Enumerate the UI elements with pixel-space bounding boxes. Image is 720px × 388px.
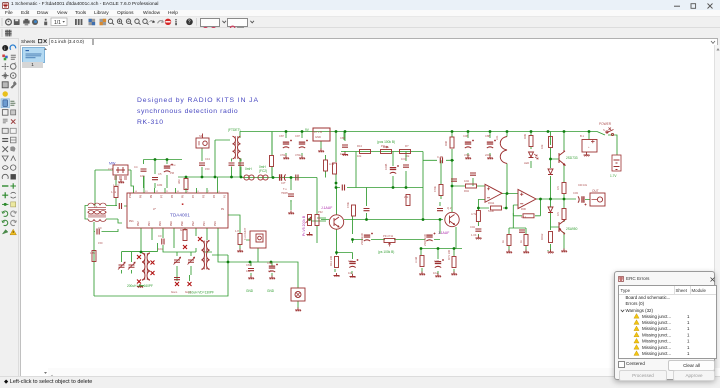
x-mark CV3 bbox=[175, 282, 179, 286]
svg-text:10u: 10u bbox=[433, 271, 438, 275]
resistor R11 bbox=[400, 150, 411, 154]
capacitor C23 series bbox=[451, 179, 457, 181]
left tool palette bbox=[0, 39, 19, 376]
svg-text:P31 P11: P31 P11 bbox=[383, 234, 394, 238]
svg-text:P96: P96 bbox=[214, 221, 217, 226]
svg-text:C03: C03 bbox=[573, 191, 578, 195]
svg-text:470u: 470u bbox=[464, 153, 470, 157]
resistor R28 feedback bbox=[491, 206, 502, 210]
svg-text:1.7V: 1.7V bbox=[610, 174, 617, 178]
svg-text:C13: C13 bbox=[205, 157, 210, 161]
svg-text:4.7k: 4.7k bbox=[329, 162, 335, 166]
capacitor C16 bbox=[349, 259, 358, 268]
svg-text:1.0K: 1.0K bbox=[471, 233, 477, 237]
svg-text:470u: 470u bbox=[295, 153, 301, 157]
wire opamp2 bias bbox=[509, 213, 526, 250]
toolbar row 2 bbox=[0, 28, 720, 39]
capacitor C02 bbox=[470, 173, 476, 175]
svg-text:Q.2: Q.2 bbox=[447, 206, 452, 210]
x-mark CV4 bbox=[188, 282, 192, 286]
diode D3 bbox=[548, 207, 553, 213]
svg-text:10.k: 10.k bbox=[521, 215, 527, 219]
node bias junctions bbox=[335, 251, 338, 254]
switch SW1 bbox=[606, 128, 614, 136]
IC U3 top pin numbers bbox=[135, 191, 221, 193]
ground C9 bbox=[269, 276, 275, 280]
svg-text:0.5: 0.5 bbox=[556, 212, 560, 216]
ground R26 bbox=[506, 250, 512, 254]
svg-text:10M: 10M bbox=[157, 183, 163, 187]
capacitor C21 bbox=[364, 209, 370, 211]
ground C8 bbox=[248, 276, 254, 280]
wire varco2 box bbox=[163, 245, 212, 281]
x-mark T2 c bbox=[151, 271, 155, 275]
svg-text:GND: GND bbox=[246, 289, 254, 293]
svg-text:10K: 10K bbox=[340, 152, 345, 156]
svg-text:(ps 100k B): (ps 100k B) bbox=[378, 250, 394, 254]
svg-text:P8: P8 bbox=[150, 194, 153, 198]
resistor R23 bbox=[549, 232, 553, 243]
resistor R8 bias bbox=[270, 156, 274, 167]
wire opamp1 feedback bbox=[478, 194, 518, 237]
capacitor C19 series bbox=[296, 175, 298, 181]
capacitor C26 series bbox=[440, 157, 442, 163]
svg-text:PM: PM bbox=[170, 171, 175, 175]
svg-text:470k: 470k bbox=[433, 186, 437, 192]
svg-text:POWER: POWER bbox=[599, 122, 612, 126]
svg-text:bisco: bisco bbox=[171, 290, 178, 294]
svg-text:Missing junct...: Missing junct... bbox=[642, 351, 671, 356]
magenta labels bbox=[302, 206, 449, 236]
wire mixer column bbox=[335, 174, 337, 188]
svg-text:C00 10k: C00 10k bbox=[578, 184, 588, 187]
resistor R9 bbox=[333, 163, 337, 174]
ground C16 bbox=[350, 274, 356, 278]
wire cap grounds mid bbox=[286, 131, 564, 274]
svg-text:1: 1 bbox=[687, 351, 690, 356]
ground P1 bbox=[307, 232, 313, 236]
wire driver chain bbox=[551, 148, 560, 251]
capacitor C04 bbox=[475, 229, 481, 231]
svg-text:L.L.C: L.L.C bbox=[113, 183, 119, 187]
resistor R1 bbox=[114, 187, 118, 198]
svg-text:P4: P4 bbox=[192, 194, 195, 198]
capacitor C4 bbox=[141, 169, 147, 171]
svg-text:GND: GND bbox=[315, 135, 321, 139]
ground R18 bbox=[451, 272, 457, 276]
capacitor C5 bbox=[152, 178, 158, 180]
svg-text:P2: P2 bbox=[213, 194, 216, 198]
node output junctions bbox=[549, 198, 552, 201]
svg-text:RK-310: RK-310 bbox=[137, 119, 164, 126]
capacitor C97 bbox=[299, 140, 308, 149]
svg-text:0.5: 0.5 bbox=[556, 186, 560, 190]
resistor R20 bbox=[439, 185, 443, 196]
transistor Q3 2SD733 bbox=[559, 150, 565, 166]
svg-text:R13 100: R13 100 bbox=[329, 255, 333, 266]
svg-text:10k: 10k bbox=[357, 154, 362, 158]
pot P2 bbox=[381, 150, 392, 154]
capacitor C8 gnd bbox=[248, 269, 254, 271]
svg-text:P92: P92 bbox=[192, 221, 195, 226]
svg-text:R13: R13 bbox=[357, 144, 362, 148]
svg-text:220u: 220u bbox=[485, 153, 491, 157]
resistor R7 bbox=[238, 234, 242, 245]
schematic canvas bbox=[48, 45, 714, 368]
svg-text:C21: C21 bbox=[108, 167, 113, 171]
svg-text:10k: 10k bbox=[246, 269, 251, 273]
ground C04 bbox=[475, 236, 481, 240]
svg-text:10k: 10k bbox=[540, 144, 544, 149]
svg-text:P88: P88 bbox=[170, 221, 173, 226]
svg-text:C0: C0 bbox=[158, 234, 162, 238]
resistor R25 bbox=[562, 209, 566, 220]
transformer T2 bbox=[142, 253, 150, 280]
resistor R5 bbox=[92, 251, 96, 262]
svg-text:C5: C5 bbox=[158, 172, 162, 176]
svg-text:C84: C84 bbox=[246, 263, 251, 267]
inductor L3 bbox=[244, 175, 254, 180]
svg-text:P7: P7 bbox=[161, 194, 164, 198]
resistor R24 bbox=[562, 183, 566, 194]
ground C88 bbox=[487, 156, 493, 160]
svg-text:1: 1 bbox=[687, 326, 690, 331]
wire detector line bbox=[240, 132, 326, 244]
svg-text:104: 104 bbox=[158, 247, 163, 251]
ceramic filter CF1 bbox=[113, 165, 128, 175]
svg-text:1/1: 1/1 bbox=[54, 20, 61, 26]
capacitor C2 pol bbox=[164, 164, 173, 173]
red designator smudges bbox=[90, 122, 612, 294]
svg-text:750PF: 750PF bbox=[281, 192, 289, 195]
battery holder B1 bbox=[582, 140, 597, 153]
capacitor C20 horizontal bbox=[280, 174, 286, 180]
transistor Q4 2SA950 bbox=[559, 219, 565, 235]
svg-text:(FC2): (FC2) bbox=[259, 169, 267, 173]
ground R27 bbox=[523, 250, 529, 254]
sheets panel bbox=[19, 38, 48, 376]
svg-text:310uH VD=130PF: 310uH VD=130PF bbox=[188, 291, 214, 295]
svg-text:C80: C80 bbox=[267, 261, 272, 265]
capacitor C87 bbox=[283, 140, 292, 149]
svg-text:FT.: FT. bbox=[94, 205, 98, 209]
wire IF bus above IC bbox=[95, 160, 182, 207]
svg-text:IUT x B: IUT x B bbox=[313, 130, 322, 134]
svg-text:10K: 10K bbox=[140, 174, 145, 178]
battery cell B2 bbox=[612, 155, 621, 171]
ground output bbox=[561, 249, 567, 253]
wire VCC top rail bbox=[240, 132, 597, 178]
node vcc junctions bbox=[451, 130, 454, 133]
svg-text:L01: L01 bbox=[495, 135, 499, 140]
capacitor C17 bbox=[435, 259, 444, 268]
varco CV1 bbox=[118, 262, 125, 270]
resistor R13 bbox=[406, 195, 410, 206]
svg-text:Missing junct...: Missing junct... bbox=[642, 332, 671, 337]
box F-COUNT bbox=[250, 231, 266, 248]
svg-text:P10: P10 bbox=[129, 193, 132, 198]
x-mark T2 d bbox=[137, 280, 141, 284]
toolbar row 1 bbox=[0, 17, 720, 28]
ground R23 bbox=[548, 250, 554, 254]
varco CV4 bbox=[188, 257, 195, 265]
ground C11 bbox=[342, 152, 348, 156]
resistor R21 bbox=[529, 136, 533, 147]
node bus junctions bbox=[154, 158, 157, 161]
svg-text:C0*: C0* bbox=[281, 181, 285, 185]
vertical scrollbar bbox=[714, 45, 720, 368]
svg-text:1.8k: 1.8k bbox=[90, 251, 96, 255]
transformer FT1 bbox=[88, 203, 106, 214]
wire led chain bbox=[530, 147, 532, 168]
svg-text:OUT: OUT bbox=[592, 189, 599, 193]
svg-text:Missing junct...: Missing junct... bbox=[642, 314, 671, 319]
wire opamp2 output bbox=[513, 199, 590, 216]
svg-text:P90: P90 bbox=[181, 221, 184, 226]
capacitor C6 bbox=[97, 229, 99, 235]
svg-text:P8: P8 bbox=[221, 208, 225, 211]
capacitor C29 bbox=[426, 233, 435, 242]
wire oscillator loop bbox=[94, 255, 298, 308]
LED D1 bbox=[529, 152, 539, 159]
green net labels bbox=[127, 128, 617, 295]
wire detector bias rail bbox=[337, 216, 463, 259]
capacitor trio under CF1 bbox=[114, 177, 127, 179]
svg-text:?: ? bbox=[188, 20, 191, 26]
svg-text:100B: 100B bbox=[384, 164, 388, 170]
svg-text:POu: POu bbox=[170, 163, 176, 167]
svg-text:1: 1 bbox=[687, 339, 690, 344]
svg-text:bisco: bisco bbox=[180, 228, 187, 232]
ground J1 bbox=[295, 308, 301, 312]
varco CV3 bbox=[174, 257, 181, 265]
svg-text:513k: 513k bbox=[488, 209, 494, 213]
svg-text:C4: C4 bbox=[134, 165, 138, 169]
svg-text:Pr-V5 200k B: Pr-V5 200k B bbox=[302, 215, 306, 236]
resistor R31 fb2 bbox=[523, 214, 534, 218]
wire q2 leads bbox=[451, 136, 453, 212]
svg-text:S.: S. bbox=[603, 128, 606, 132]
svg-text:R011: R011 bbox=[488, 201, 495, 205]
wire detector IF line bbox=[178, 140, 241, 179]
x-mark T3 bbox=[198, 237, 202, 241]
coordinate + command row bbox=[48, 38, 720, 45]
svg-text:bisco: bisco bbox=[185, 290, 192, 294]
transistor Q1 bbox=[329, 215, 343, 229]
wire fcount bbox=[228, 215, 272, 276]
svg-text:P5: P5 bbox=[182, 194, 185, 198]
resistor R32 agc bbox=[315, 215, 319, 226]
svg-text:+: + bbox=[588, 146, 590, 149]
ground C06 bbox=[465, 156, 471, 160]
op-amp U1 bbox=[485, 184, 502, 202]
svg-text:P82: P82 bbox=[137, 221, 140, 226]
svg-text:P84: P84 bbox=[148, 221, 151, 226]
ground VR1 bbox=[318, 149, 324, 153]
svg-text:1k: 1k bbox=[519, 240, 523, 243]
svg-text:C97: C97 bbox=[295, 134, 300, 138]
transformer FT2 detector bbox=[233, 136, 241, 159]
wire varco1 box bbox=[122, 243, 158, 286]
capacitor C1 coupling bbox=[119, 203, 121, 209]
capacitor C12 bbox=[390, 165, 399, 174]
svg-text:C0: C0 bbox=[98, 226, 102, 230]
svg-text:C.7B: C.7B bbox=[437, 155, 443, 159]
capacitor C9 gnd bbox=[269, 264, 278, 273]
wire antenna input bbox=[115, 175, 117, 206]
wire output stage bbox=[551, 165, 565, 248]
svg-text:P81: P81 bbox=[129, 220, 134, 223]
svg-text:TDA4001: TDA4001 bbox=[170, 213, 190, 218]
ground battery bbox=[584, 153, 590, 157]
svg-text:J.1AUF: J.1AUF bbox=[438, 231, 449, 235]
node signal junctions bbox=[365, 218, 368, 221]
svg-text:470u: 470u bbox=[280, 153, 286, 157]
ground R7 bbox=[237, 249, 243, 253]
capacitor C06 bbox=[465, 140, 474, 149]
svg-text:P3: P3 bbox=[203, 194, 206, 198]
svg-text:1: 1 bbox=[687, 320, 690, 325]
wire regulator input line bbox=[286, 132, 321, 150]
svg-text:150: 150 bbox=[205, 167, 210, 171]
svg-text:38C: 38C bbox=[177, 179, 181, 184]
resistor R18 bbox=[452, 257, 456, 268]
svg-text:SF: SF bbox=[199, 134, 203, 138]
wire battery bbox=[597, 132, 617, 156]
wire pot network bbox=[336, 152, 454, 222]
wire FT1 links bbox=[85, 206, 127, 297]
ic marker dot bbox=[182, 203, 184, 205]
pot P1 vertical bbox=[306, 215, 312, 226]
svg-text:P9: P9 bbox=[140, 194, 143, 198]
svg-text:3.3M: 3.3M bbox=[414, 256, 418, 263]
svg-text:B.1: B.1 bbox=[580, 134, 585, 138]
svg-text:20k: 20k bbox=[404, 195, 409, 199]
svg-text:P32: P32 bbox=[318, 210, 323, 214]
x-mark T2 b bbox=[151, 261, 155, 265]
svg-text:P1: P1 bbox=[224, 194, 227, 198]
svg-text:i: i bbox=[4, 46, 5, 51]
inductor L1 bbox=[500, 137, 507, 164]
svg-text:200uH VD=160PF: 200uH VD=160PF bbox=[127, 284, 153, 288]
capacitor C28 bbox=[364, 233, 373, 242]
svg-text:2SD733: 2SD733 bbox=[566, 156, 578, 160]
svg-text:P11: P11 bbox=[381, 144, 386, 148]
svg-text:Designed by RADIO KITS IN JA: Designed by RADIO KITS IN JA bbox=[137, 97, 259, 104]
capacitor C15 bbox=[342, 185, 344, 191]
capacitor C13 bbox=[199, 163, 205, 165]
wire choke lead bbox=[506, 132, 508, 194]
op-amp U2 bbox=[518, 189, 536, 208]
pot P2 wiper bbox=[383, 146, 388, 148]
svg-text:1: 1 bbox=[687, 345, 690, 350]
jack OUT bbox=[590, 193, 605, 206]
capacitor C10 750p bbox=[288, 194, 294, 196]
svg-text:2SD933D: 2SD933D bbox=[423, 234, 427, 246]
svg-text:C01: C01 bbox=[348, 259, 353, 263]
ERC Errors dialog bbox=[614, 271, 715, 380]
svg-text:C04: C04 bbox=[470, 225, 475, 229]
window title bar bbox=[0, 0, 720, 10]
svg-text:1.5k: 1.5k bbox=[111, 190, 117, 194]
capacitor C18 bbox=[519, 230, 525, 232]
ground C17 bbox=[435, 274, 441, 278]
svg-text:R012: R012 bbox=[540, 233, 544, 240]
wire opamp1 input bbox=[452, 178, 485, 186]
transformer T3 bbox=[202, 241, 210, 270]
resistor R29 bbox=[476, 211, 480, 222]
svg-text:C87: C87 bbox=[279, 134, 284, 138]
svg-text:R04: R04 bbox=[464, 189, 469, 193]
svg-text:2SA950: 2SA950 bbox=[566, 227, 578, 231]
svg-text:R09: R09 bbox=[523, 134, 527, 139]
horizontal scrollbar bbox=[48, 368, 714, 376]
svg-text:1: 1 bbox=[687, 314, 690, 319]
svg-text:Missing junct...: Missing junct... bbox=[642, 339, 671, 344]
capacitor C7 bbox=[162, 239, 164, 245]
svg-text:Missing junct...: Missing junct... bbox=[642, 320, 671, 325]
inductor L2 bbox=[258, 175, 268, 180]
transistor Q2 bbox=[445, 212, 459, 226]
capacitor C22 bbox=[437, 209, 443, 211]
svg-text:R?1 100: R?1 100 bbox=[447, 249, 451, 260]
svg-text:R08: R08 bbox=[444, 141, 448, 146]
wire IC bottom pin stubs bbox=[141, 228, 228, 262]
svg-text:2SD933D: 2SD933D bbox=[360, 233, 364, 245]
ground T2 bbox=[137, 284, 143, 288]
x-mark T2 a bbox=[137, 255, 141, 259]
capacitor C27 bbox=[174, 278, 180, 280]
resistor R19 bbox=[450, 137, 454, 148]
pot P3 bbox=[384, 239, 395, 243]
resistor R22 bbox=[549, 137, 553, 148]
svg-text:GND: GND bbox=[267, 289, 275, 293]
capacitor C11 bbox=[342, 145, 348, 147]
resistor R30 input bbox=[466, 184, 477, 188]
resistor R26 bbox=[507, 235, 511, 246]
capacitor C14b bbox=[403, 165, 409, 167]
svg-text:synchronous detection radio: synchronous detection radio bbox=[137, 108, 238, 115]
node loop junctions bbox=[249, 261, 252, 264]
svg-text:U*: U* bbox=[153, 207, 157, 211]
filter SF1 bbox=[196, 134, 209, 149]
svg-text:150: 150 bbox=[98, 241, 103, 245]
ground C97 bbox=[299, 156, 305, 160]
resistor R10 bbox=[360, 150, 371, 154]
svg-text:(FTDET): (FTDET) bbox=[228, 128, 240, 132]
svg-text:10Ω: 10Ω bbox=[464, 179, 469, 183]
svg-text:R?: R? bbox=[405, 144, 409, 148]
status bar bbox=[0, 376, 720, 388]
capacitor C24 bbox=[229, 163, 235, 165]
svg-text:F-COUNT: F-COUNT bbox=[243, 228, 247, 240]
x-mark R6 bbox=[183, 245, 187, 249]
resistor R6 crossed bbox=[183, 230, 187, 241]
svg-text:Missing junct...: Missing junct... bbox=[642, 326, 671, 331]
svg-text:(pos 100k B): (pos 100k B) bbox=[377, 140, 395, 144]
svg-text:C87: C87 bbox=[340, 136, 345, 140]
svg-text:0mH: 0mH bbox=[245, 167, 252, 171]
svg-text:0.04: 0.04 bbox=[401, 157, 407, 161]
svg-text:P94: P94 bbox=[203, 221, 206, 226]
IC U3 TDA4001 body bbox=[127, 193, 228, 228]
svg-text:1k: 1k bbox=[501, 240, 505, 243]
resistor R16 bbox=[335, 257, 339, 268]
ground C10 bbox=[288, 211, 294, 215]
svg-text:C88: C88 bbox=[485, 134, 490, 138]
resistor R33 bbox=[324, 160, 328, 171]
menu bar bbox=[0, 10, 720, 17]
